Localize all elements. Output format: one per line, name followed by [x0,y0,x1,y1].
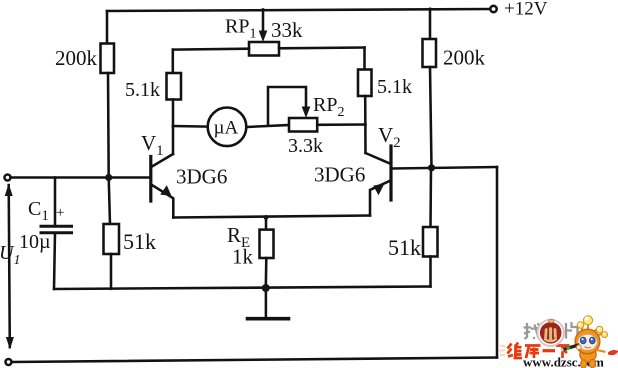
RP1 wiper arrowhead [259,31,268,43]
svg-text:3.3k: 3.3k [288,135,323,157]
potentiometer RP2 body [289,118,317,132]
wire V2 base to right rail [393,167,498,169]
mascot hand [576,345,581,350]
mascot body [580,347,596,362]
wire right 51k bottom lead [429,257,432,287]
ground stem [265,288,268,316]
watermark char pian (piece) gray [566,322,579,339]
meter uA circle [208,108,247,147]
svg-text:+: + [56,205,64,221]
wire C1 top lead [54,178,57,227]
wire RP1 wiper stem [262,10,265,32]
wire RP2 right [317,123,365,126]
resistor RE stub [265,217,268,229]
wire bottom mid rail [54,287,431,290]
transistor V2 emitter [370,181,390,216]
wire RP1 left [173,47,249,50]
watermark red brand text weikuyixia [508,343,570,359]
mascot legs [581,360,587,368]
wire right 5.1k bottom lead / V2 collector riser [364,96,367,153]
char yi [543,349,556,352]
svg-text:200k: 200k [443,46,486,70]
mascot eyes [580,337,586,344]
resistor right 5.1k body [358,70,372,97]
wire C1 bottom lead [54,233,55,289]
V2 emitter arrowhead [373,184,384,196]
svg-text:51k: 51k [123,229,156,254]
V1 emitter arrowhead [160,185,171,196]
node input terminal [5,175,11,181]
potentiometer RP1 body [249,42,279,56]
wire meter right [246,125,289,127]
node V2 base junction dot [428,164,435,171]
node bottom terminal [6,359,12,365]
svg-text:33k: 33k [271,18,303,42]
wire meter left [173,125,208,128]
wire emitter rail [173,216,370,218]
watermark stamp circle [538,320,564,346]
wire right vertical lower [429,168,432,227]
mascot crown balls [583,316,592,325]
wire left 5.1k bottom lead [172,100,175,155]
svg-text:200k: 200k [55,46,98,70]
resistor left 5.1k body [167,73,182,100]
watermark speed dashes [499,346,505,355]
wire right tall vertical [496,167,499,358]
ground bar [248,317,289,321]
resistor right 200k body [423,39,437,67]
node RE top junction dot [264,215,269,220]
wire RP2 wiper loop [268,87,306,125]
transistor Q V1 bar [149,157,152,202]
mascot right arm and ribbon [596,350,606,352]
svg-text:5.1k: 5.1k [377,76,412,98]
capacitor C1 plates [41,225,72,228]
node RE ground junction dot [262,284,270,292]
transistor Q V2 bar [389,146,392,200]
mascot mouth [585,347,592,348]
wire left vertical lower [109,178,110,225]
U1 measure line [9,185,10,347]
wire RE bottom lead [265,258,268,288]
watermark stamp hand top tab [549,319,554,323]
svg-text:+12V: +12V [504,0,548,20]
svg-text:µA: µA [214,118,239,139]
wire left vertical mid [107,73,110,178]
wire V1 base [11,176,150,179]
resistor right 51k body [423,227,438,257]
resistor left 51k body [104,224,120,254]
mascot crown stems [582,322,604,336]
svg-text:51k: 51k [388,235,421,260]
svg-text:3DG6: 3DG6 [314,163,365,187]
wire bottom rail [12,358,498,363]
svg-text:3DG6: 3DG6 [176,165,227,189]
mascot head helmet [575,329,600,354]
char ku [525,346,541,359]
svg-text:10µ: 10µ [19,231,51,253]
watermark group bottom-right [499,316,618,368]
char wei [508,344,514,357]
mascot pen [563,345,580,350]
transistor V1 collector [152,154,173,167]
watermark char zhao (find) gray [524,323,540,339]
char xia [556,346,570,359]
mascot [561,316,618,368]
wire top supply rail [107,9,491,11]
U1 arrow up head [5,184,13,197]
wire left 5.1k top lead [172,50,175,73]
node V1 base junction dot [105,174,112,181]
wire RP1 right [279,46,365,49]
RP2 wiper arrowhead [302,107,311,119]
svg-text:1k: 1k [232,245,254,269]
U1 arrow down head [6,337,14,350]
wire 51k bottom [110,254,113,289]
watermark stamp hand fingers [545,329,556,341]
wire right 200k top stem [429,9,432,39]
resistor RE body [260,230,274,258]
wire right 5.1k top lead [363,48,366,70]
transistor V2 collector [366,153,390,164]
wire left vertical upper [106,11,109,44]
node +12V terminal [490,6,496,12]
resistor left 200k body [101,44,115,74]
wire right vertical mid [430,67,432,168]
transistor V1 emitter [153,185,174,217]
mascot face [578,334,598,350]
svg-text:5.1k: 5.1k [125,79,160,101]
